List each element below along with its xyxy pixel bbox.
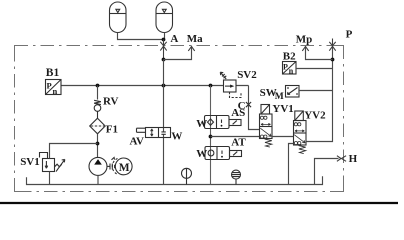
wire Mp branch (306, 47, 333, 60)
junction AS branch (209, 84, 213, 88)
svg-text:SV2: SV2 (237, 69, 257, 81)
wire C line (249, 86, 260, 130)
svg-text:A: A (170, 33, 178, 45)
wire A line lower (163, 134, 165, 184)
junction P branch (331, 58, 335, 62)
svg-text:YV1: YV1 (272, 103, 293, 115)
svg-text:n: n (53, 86, 58, 96)
wire YV2 drain to tank (289, 144, 294, 185)
relief valve RV (94, 100, 101, 118)
svg-text:P: P (346, 29, 353, 41)
bottom page rule (0, 202, 398, 204)
svg-text:SV1: SV1 (20, 156, 40, 168)
svg-text:Mp: Mp (296, 34, 313, 46)
wire pump to tank rail (97, 175, 99, 184)
wire SV1 top to pump junction (50, 144, 98, 159)
wire SW to P line (299, 90, 333, 92)
svg-text:P: P (283, 63, 288, 72)
wire AS AT branch (210, 86, 212, 185)
port Mp arrow (302, 46, 308, 51)
junction YV line (209, 135, 213, 139)
junction pump inlet (96, 142, 100, 146)
coupling (107, 157, 118, 174)
solenoid valve YV2 (294, 111, 307, 154)
level gauge (182, 168, 192, 184)
svg-text:RV: RV (103, 96, 119, 108)
svg-text:H: H (349, 153, 358, 165)
svg-text:B2: B2 (283, 50, 296, 62)
svg-text:W: W (171, 130, 182, 142)
svg-text:YV2: YV2 (304, 110, 326, 122)
accumulator AC1 (110, 2, 127, 33)
wire F1 to pump (97, 134, 99, 158)
port H arrows (337, 156, 346, 162)
solenoid valve YV1 (260, 105, 273, 148)
wire pilot supply to YV1 (211, 136, 260, 138)
svg-text:P: P (47, 81, 52, 91)
wire accumulator1 to node (118, 33, 164, 40)
wire to Ma port (164, 47, 192, 60)
svg-text:n: n (289, 67, 294, 76)
svg-text:M: M (275, 92, 284, 102)
temperature switch AT (205, 147, 242, 160)
junction A line crossing (162, 84, 166, 88)
wire H line (315, 159, 339, 185)
manifold enclosure frame (15, 46, 344, 192)
accumulator AC2 (156, 2, 173, 33)
junction RV branch (96, 84, 100, 88)
orifice C (246, 102, 251, 107)
wire SV1 bottom to tank rail (49, 172, 51, 185)
wire main gauge line (62, 85, 249, 87)
wire P line (306, 46, 333, 142)
svg-text:B1: B1 (46, 67, 60, 79)
pressure transducer B1 (46, 80, 62, 95)
svg-text:AT: AT (231, 136, 246, 148)
svg-text:C: C (238, 100, 246, 112)
pressure switch AS (205, 116, 242, 129)
shutoff valve AV (137, 128, 171, 138)
wire RV line (97, 86, 99, 100)
wire A line upper (163, 60, 165, 132)
svg-text:W: W (196, 148, 207, 160)
pressure switch SW M (286, 86, 300, 98)
port A arrows (160, 40, 166, 60)
port Ma arrow (188, 46, 194, 51)
svg-text:M: M (119, 162, 130, 174)
tank rail (27, 176, 323, 184)
svg-text:Ma: Ma (187, 33, 203, 45)
wire accumulator2 down (164, 33, 166, 40)
pressure transducer B2 (283, 62, 297, 75)
wire YV1 to YV2 (272, 136, 294, 138)
svg-text:AV: AV (130, 135, 145, 147)
breather (232, 170, 241, 184)
port P arrows (329, 39, 335, 51)
pilot relief valve SV1 (40, 153, 65, 172)
filter F1 (90, 118, 106, 134)
motor M1 (115, 158, 132, 175)
pilot valve SV2 (220, 72, 241, 97)
svg-text:W: W (196, 118, 207, 130)
junction accumulators node (162, 38, 166, 42)
wire B2 to P line (296, 68, 333, 70)
pump P1 (89, 157, 107, 175)
junction A branch (162, 58, 166, 62)
svg-text:F1: F1 (106, 124, 118, 136)
